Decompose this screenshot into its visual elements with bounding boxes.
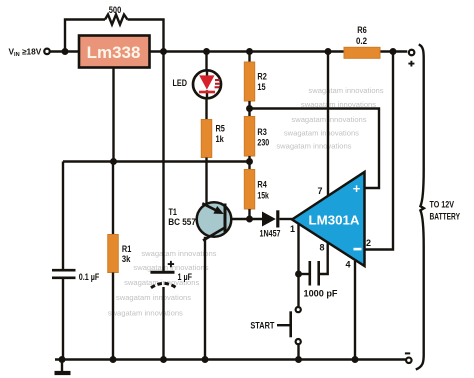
node ground collector junction bbox=[202, 356, 209, 363]
LED bbox=[193, 70, 221, 98]
wire output rail LM338 OUT to R6 bbox=[150, 50, 345, 52]
positive output terminal bbox=[408, 50, 414, 67]
node 1000pF junction bbox=[295, 271, 302, 278]
negative output terminal bbox=[405, 353, 412, 363]
watermark swagatam innovations (lower cascade) bbox=[108, 249, 217, 318]
transistor Q1 BC557 bbox=[197, 202, 232, 240]
svg-text:8: 8 bbox=[319, 243, 324, 253]
node ground 0.1uF junction bbox=[59, 356, 66, 363]
svg-text:R4: R4 bbox=[257, 180, 266, 190]
svg-text:R3: R3 bbox=[257, 127, 266, 137]
wire 500 resistor to output rail bbox=[128, 20, 164, 52]
wire R4 to base node bbox=[248, 209, 250, 219]
svg-text:1000 pF: 1000 pF bbox=[304, 288, 338, 298]
resistor R3 bbox=[244, 117, 254, 157]
ground rail bbox=[55, 358, 406, 360]
svg-text:15k: 15k bbox=[257, 190, 269, 200]
pin 7 label bbox=[317, 186, 322, 196]
pin 4 label bbox=[345, 260, 350, 270]
wire ADJ node down to R1 bbox=[112, 162, 114, 235]
node LED junction bbox=[203, 48, 210, 55]
svg-text:1: 1 bbox=[290, 224, 295, 234]
op-amp U1 LM301A bbox=[292, 172, 365, 266]
svg-text:swagatam innovations: swagatam innovations bbox=[108, 309, 183, 318]
node R3 R4 junction bbox=[246, 158, 253, 165]
label TO 12V BATTERY bbox=[430, 200, 461, 222]
node bypass/1uF junction bbox=[160, 48, 167, 55]
wire R1 to ground rail bbox=[112, 273, 114, 360]
svg-text:2: 2 bbox=[366, 238, 371, 248]
svg-text:LM301A: LM301A bbox=[309, 214, 360, 228]
svg-text:0.1 µF: 0.1 µF bbox=[79, 272, 100, 282]
pin 2 label bbox=[366, 238, 371, 248]
switch START bbox=[277, 307, 301, 344]
svg-text:15: 15 bbox=[257, 82, 265, 92]
wire diode to op-amp pin 1 bbox=[280, 218, 293, 220]
svg-text:VIN ≥18V: VIN ≥18V bbox=[9, 46, 42, 58]
value label 500 bbox=[109, 5, 122, 15]
resistor R6 bbox=[344, 47, 380, 58]
svg-text:1 µF: 1 µF bbox=[178, 272, 193, 282]
pin 1 label bbox=[290, 224, 295, 234]
wire feedback R2-R3 node to noninverting input bbox=[250, 109, 380, 189]
node pin7 rail junction bbox=[325, 48, 332, 55]
svg-text:swagatam innovations: swagatam innovations bbox=[276, 142, 351, 151]
label R4 15k bbox=[257, 180, 269, 201]
label VIN >= 18V bbox=[9, 46, 42, 58]
wire pin 1 down to start switch bbox=[297, 220, 299, 306]
capacitor 1uF bbox=[150, 261, 192, 288]
label 1N457 bbox=[260, 228, 281, 238]
input terminal VIN bbox=[44, 49, 50, 55]
svg-text:TO 12V: TO 12V bbox=[430, 200, 455, 210]
wire switch to ground rail bbox=[297, 345, 299, 360]
label R3 230 bbox=[257, 127, 269, 147]
wire pin 4 to ground rail bbox=[354, 261, 356, 360]
wire 0.1uF to ground rail bbox=[62, 278, 64, 360]
wire inverting input to battery sense bbox=[365, 52, 394, 250]
wire ADJ horizontal run bbox=[63, 160, 250, 162]
label 1000 pF bbox=[304, 288, 338, 298]
svg-text:swagatam innovations: swagatam innovations bbox=[284, 129, 359, 138]
svg-text:R1: R1 bbox=[122, 244, 131, 254]
capacitor 0.1uF bbox=[52, 270, 100, 282]
wire transistor collector to ground rail bbox=[204, 237, 206, 360]
svg-text:T1: T1 bbox=[169, 207, 177, 217]
label LED bbox=[173, 78, 188, 88]
watermark swagatam innovations (upper cascade) bbox=[276, 86, 383, 151]
wire pin 8 to 1000pF bbox=[319, 243, 328, 275]
wire pin 7 to positive rail bbox=[327, 52, 329, 198]
svg-text:swagatam innovations: swagatam innovations bbox=[116, 293, 191, 302]
svg-text:+: + bbox=[353, 181, 361, 196]
resistor R2 bbox=[244, 62, 254, 101]
svg-text:4: 4 bbox=[345, 260, 350, 270]
label START bbox=[250, 321, 274, 331]
wire output rail down to R2 bbox=[248, 52, 250, 63]
label R6 0.2 bbox=[356, 25, 367, 46]
wire R6 to positive terminal bbox=[380, 50, 407, 52]
wire R5 to transistor emitter bbox=[205, 158, 207, 204]
wire LED to R5 bbox=[205, 98, 207, 120]
node ground 1uF junction bbox=[160, 356, 167, 363]
wire input terminal to LM338 IN pin bbox=[50, 50, 79, 52]
wire bypass left riser (node to 500 resistor) bbox=[65, 20, 105, 52]
node ground R1 junction bbox=[110, 356, 117, 363]
resistor 500 (zigzag) bbox=[105, 15, 128, 25]
svg-text:7: 7 bbox=[317, 186, 322, 196]
wire R3 to R4 bbox=[248, 156, 250, 170]
wire left branch down to 0.1uF bbox=[62, 162, 64, 271]
svg-text:230: 230 bbox=[257, 137, 269, 147]
resistor R1 bbox=[108, 235, 119, 273]
svg-text:R2: R2 bbox=[257, 72, 266, 82]
node ground switch junction bbox=[295, 356, 302, 363]
node R2 R3 feedback junction bbox=[246, 105, 253, 112]
node input junction bbox=[62, 48, 69, 55]
svg-text:BC 557: BC 557 bbox=[168, 217, 196, 227]
svg-text:500: 500 bbox=[109, 5, 122, 15]
svg-text:BATTERY: BATTERY bbox=[430, 212, 461, 222]
svg-text:0.2: 0.2 bbox=[356, 36, 367, 46]
wire LM338 ADJ pin down bbox=[112, 68, 114, 162]
label R5 1k bbox=[216, 124, 225, 145]
pin 8 label bbox=[319, 243, 324, 253]
wire R2 to R3 bbox=[248, 101, 250, 117]
svg-text:1N457: 1N457 bbox=[260, 228, 281, 238]
node sense rail junction bbox=[390, 48, 397, 55]
capacitor 1000pF bbox=[299, 261, 319, 286]
node ground pin4 junction bbox=[352, 356, 359, 363]
wire output rail down to LED bbox=[205, 52, 207, 71]
svg-text:START: START bbox=[250, 321, 274, 331]
node base diode junction bbox=[246, 216, 253, 223]
svg-text:LED: LED bbox=[173, 78, 188, 88]
wire 1uF to ground rail bbox=[162, 287, 164, 360]
label T1 BC 557 bbox=[168, 207, 196, 227]
ground bbox=[55, 360, 71, 374]
svg-text:1k: 1k bbox=[216, 134, 225, 144]
svg-text:R5: R5 bbox=[216, 124, 225, 134]
svg-text:R6: R6 bbox=[357, 25, 367, 35]
node ADJ R1 junction bbox=[110, 158, 117, 165]
wire transistor base to node bbox=[231, 218, 262, 220]
regulator U2 LM338 bbox=[79, 36, 150, 68]
wire output rail down to 1uF bbox=[162, 52, 164, 272]
label R1 3k bbox=[122, 244, 131, 264]
svg-text:swagatam innovations: swagatam innovations bbox=[308, 86, 383, 95]
battery brace bbox=[416, 45, 424, 370]
node R2 top junction bbox=[246, 48, 253, 55]
resistor R5 bbox=[201, 120, 212, 158]
resistor R4 bbox=[244, 170, 254, 210]
diode D1 1N457 bbox=[262, 210, 278, 227]
svg-text:3k: 3k bbox=[122, 254, 131, 264]
svg-text:Lm338: Lm338 bbox=[87, 43, 141, 62]
label R2 15 bbox=[257, 72, 266, 93]
